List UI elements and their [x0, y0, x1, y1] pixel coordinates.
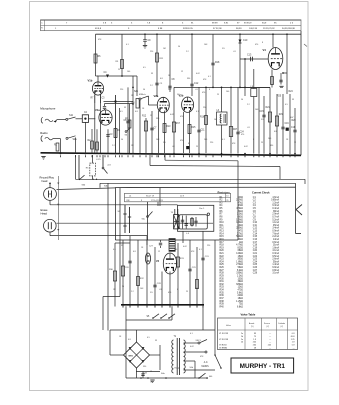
svg-text:4.6mA: 4.6mA — [272, 196, 279, 199]
svg-text:V4: V4 — [263, 48, 267, 52]
svg-text:50: 50 — [241, 99, 243, 101]
svg-text:6.9mA: 6.9mA — [272, 266, 279, 269]
svg-text:0.1: 0.1 — [196, 111, 199, 113]
svg-text:V2a: V2a — [154, 94, 159, 98]
svg-text:R25: R25 — [220, 264, 225, 266]
svg-text:25: 25 — [261, 142, 263, 144]
svg-text:0.1: 0.1 — [208, 76, 211, 78]
svg-text:98,99: 98,99 — [236, 28, 242, 30]
svg-text:28: 28 — [254, 348, 256, 350]
svg-text:C28: C28 — [253, 273, 258, 275]
svg-text:Erase: Erase — [41, 208, 49, 212]
svg-text:S4c: S4c — [142, 219, 146, 221]
svg-text:.01: .01 — [159, 289, 162, 291]
svg-text:1.4mA: 1.4mA — [272, 263, 279, 266]
svg-text:6.8: 6.8 — [160, 78, 163, 80]
svg-text:2.2: 2.2 — [186, 51, 189, 53]
svg-text:C12: C12 — [253, 228, 258, 230]
svg-text:18kΩ: 18kΩ — [238, 298, 244, 300]
svg-text:470Ω: 470Ω — [237, 290, 243, 292]
svg-text:R13: R13 — [166, 126, 171, 128]
svg-text:33kΩ: 33kΩ — [238, 239, 244, 241]
svg-text:0.1: 0.1 — [126, 44, 129, 46]
svg-text:50: 50 — [121, 139, 123, 141]
svg-text:V1b: V1b — [88, 79, 93, 83]
svg-text:—: — — [269, 342, 271, 344]
svg-text:V2 9CC88: V2 9CC88 — [219, 339, 228, 341]
svg-text:V3 EL84: V3 EL84 — [219, 345, 227, 347]
svg-text:2.2: 2.2 — [131, 291, 134, 293]
svg-text:R16: R16 — [220, 239, 225, 241]
svg-text:—: — — [293, 348, 295, 350]
svg-text:560kΩ: 560kΩ — [236, 236, 243, 238]
svg-text:100: 100 — [268, 138, 271, 140]
svg-text:33: 33 — [292, 99, 294, 101]
svg-text:R31: R31 — [220, 281, 225, 283]
svg-text:.01: .01 — [195, 89, 198, 91]
svg-text:2.2mA: 2.2mA — [272, 235, 279, 238]
svg-text:470: 470 — [255, 44, 258, 46]
svg-text:—: — — [269, 336, 271, 338]
svg-text:45mA: 45mA — [273, 224, 279, 227]
svg-text:1MΩ: 1MΩ — [238, 205, 243, 207]
svg-text:R17: R17 — [176, 123, 181, 125]
svg-text:0.8mA: 0.8mA — [272, 269, 279, 272]
svg-text:R14: R14 — [220, 233, 225, 235]
svg-text:25: 25 — [186, 291, 188, 293]
svg-text:330: 330 — [187, 78, 190, 80]
svg-text:49Mc/s: 49Mc/s — [139, 94, 146, 96]
svg-text:12: 12 — [150, 115, 152, 117]
svg-text:75Ω: 75Ω — [239, 304, 244, 306]
svg-text:50: 50 — [178, 46, 180, 48]
svg-text:R12: R12 — [220, 228, 225, 230]
svg-text:220: 220 — [150, 51, 153, 53]
svg-text:0.1: 0.1 — [190, 333, 193, 335]
svg-text:V4 EM84: V4 EM84 — [219, 348, 228, 350]
svg-text:220: 220 — [210, 142, 213, 144]
svg-text:R15: R15 — [220, 236, 225, 238]
svg-text:0.5: 0.5 — [147, 337, 150, 339]
svg-text:1.9: 1.9 — [292, 342, 295, 344]
svg-text:Head: Head — [41, 212, 48, 216]
svg-text:2b: 2b — [241, 342, 243, 344]
svg-text:220: 220 — [120, 89, 123, 91]
svg-text:0.02: 0.02 — [190, 346, 194, 348]
svg-text:Current Check: Current Check — [252, 191, 270, 195]
svg-text:.01: .01 — [172, 146, 175, 148]
svg-text:(V): (V) — [281, 326, 284, 328]
svg-text:Cathode: Cathode — [278, 322, 285, 325]
svg-text:12: 12 — [294, 142, 296, 144]
svg-text:240 V: 240 V — [196, 340, 202, 342]
svg-text:C23: C23 — [253, 259, 258, 261]
svg-text:R17: R17 — [220, 242, 225, 244]
svg-text:12: 12 — [181, 71, 183, 73]
svg-text:0.7mA: 0.7mA — [272, 215, 279, 218]
svg-text:47kΩ: 47kΩ — [238, 202, 244, 204]
svg-text:50: 50 — [143, 89, 145, 91]
svg-text:14mA: 14mA — [273, 238, 279, 241]
svg-text:8: 8 — [177, 289, 178, 291]
svg-text:R36: R36 — [220, 295, 225, 297]
svg-text:38mA: 38mA — [273, 210, 279, 213]
svg-text:R19: R19 — [220, 247, 225, 249]
svg-text:220kΩ: 220kΩ — [236, 228, 243, 230]
svg-text:1M: 1M — [163, 48, 166, 50]
svg-text:93: 93 — [254, 333, 256, 335]
svg-text:8: 8 — [209, 89, 210, 91]
svg-text:—: — — [269, 348, 271, 350]
svg-text:R39: R39 — [220, 304, 225, 306]
svg-text:0.5: 0.5 — [120, 111, 123, 113]
svg-text:4.7MΩ: 4.7MΩ — [236, 245, 243, 247]
svg-text:0.9mA: 0.9mA — [272, 230, 279, 233]
svg-text:470: 470 — [180, 140, 183, 142]
svg-text:R21: R21 — [220, 253, 225, 255]
svg-text:680Ω: 680Ω — [237, 216, 243, 218]
svg-text:R32: R32 — [220, 284, 225, 286]
svg-text:Radio: Radio — [40, 131, 48, 135]
svg-text:1.9: 1.9 — [253, 339, 256, 341]
svg-text:Rec/y: Rec/y — [175, 367, 180, 369]
svg-text:—: — — [269, 333, 271, 335]
svg-text:6.8: 6.8 — [274, 131, 277, 133]
svg-text:2.2: 2.2 — [247, 104, 250, 106]
svg-text:0.4mA: 0.4mA — [272, 207, 279, 210]
svg-text:31mA: 31mA — [273, 244, 279, 247]
svg-text:330kΩ: 330kΩ — [236, 273, 243, 275]
svg-text:2.9mA: 2.9mA — [272, 213, 279, 216]
svg-text:R29: R29 — [220, 275, 225, 277]
svg-text:9.5mA: 9.5mA — [272, 255, 279, 258]
svg-text:98 99: 98 99 — [212, 23, 218, 25]
svg-text:200: 200 — [253, 342, 256, 344]
svg-text:1.8mA: 1.8mA — [272, 246, 279, 249]
svg-text:MURPHY - TR1: MURPHY - TR1 — [240, 363, 286, 370]
svg-text:A.C.: A.C. — [204, 361, 209, 364]
svg-text:Valve Table: Valve Table — [241, 312, 256, 316]
svg-text:2.2kΩ: 2.2kΩ — [237, 275, 243, 277]
svg-text:C25: C25 — [253, 264, 258, 266]
svg-text:470kΩ: 470kΩ — [236, 208, 243, 210]
svg-text:R33: R33 — [220, 287, 225, 289]
svg-text:2b: 2b — [241, 336, 243, 338]
svg-text:25: 25 — [196, 146, 198, 148]
svg-text:MAINS: MAINS — [202, 365, 210, 368]
svg-text:C20: C20 — [253, 250, 258, 252]
svg-text:C11: C11 — [253, 225, 258, 227]
svg-text:8.2kΩ: 8.2kΩ — [237, 270, 243, 272]
svg-text:6.8kΩ: 6.8kΩ — [237, 306, 243, 308]
svg-text:5%: 5% — [150, 292, 153, 294]
svg-text:33: 33 — [121, 245, 123, 247]
svg-text:R26: R26 — [220, 267, 225, 269]
svg-text:33: 33 — [155, 340, 157, 342]
svg-text:330: 330 — [270, 145, 273, 147]
svg-text:C18: C18 — [253, 245, 258, 247]
svg-text:50: 50 — [122, 286, 124, 288]
svg-text:R15: R15 — [191, 127, 196, 129]
svg-text:R34: R34 — [220, 290, 225, 292]
svg-text:head: head — [42, 179, 48, 183]
svg-text:1.1mA: 1.1mA — [272, 221, 279, 224]
svg-text:150Ω: 150Ω — [237, 278, 243, 280]
svg-text:68kΩ: 68kΩ — [238, 250, 244, 252]
svg-text:100: 100 — [127, 71, 130, 73]
svg-text:2.2: 2.2 — [150, 85, 153, 87]
svg-text:5%: 5% — [261, 119, 264, 121]
svg-text:29: 29 — [226, 200, 228, 202]
svg-text:6.8: 6.8 — [128, 339, 131, 341]
svg-text:1.25: 1.25 — [291, 339, 295, 341]
svg-text:0.3mA: 0.3mA — [272, 252, 279, 255]
svg-text:2.7kΩ: 2.7kΩ — [237, 233, 243, 235]
svg-text:1M: 1M — [214, 119, 217, 121]
svg-text:94,99,959,98: 94,99,959,98 — [282, 28, 296, 30]
svg-text:1.5MΩ: 1.5MΩ — [236, 219, 243, 221]
svg-text:C12: C12 — [194, 83, 199, 85]
svg-text:15kΩ: 15kΩ — [238, 256, 244, 258]
svg-text:22kΩ: 22kΩ — [238, 211, 244, 213]
svg-text:0.02: 0.02 — [170, 114, 174, 116]
svg-text:2.2MΩ: 2.2MΩ — [236, 200, 243, 202]
svg-text:220Ω: 220Ω — [237, 295, 243, 297]
svg-text:22J: 22J — [107, 164, 110, 166]
svg-text:3.3kΩ: 3.3kΩ — [237, 214, 243, 216]
svg-text:6.3mA: 6.3mA — [272, 204, 279, 207]
svg-text:7.6mA: 7.6mA — [272, 232, 279, 235]
svg-text:R13: R13 — [220, 231, 225, 233]
svg-text:R22: R22 — [220, 256, 225, 258]
svg-text:.01: .01 — [233, 51, 236, 53]
svg-text:92/920 95: 92/920 95 — [183, 28, 194, 30]
svg-text:69 8,8: 69 8,8 — [95, 28, 102, 30]
svg-text:C21: C21 — [253, 253, 258, 255]
svg-text:2.2: 2.2 — [112, 145, 115, 147]
svg-text:Microphone: Microphone — [40, 107, 55, 111]
svg-text:C13: C13 — [247, 55, 252, 57]
svg-text:93 93,9: 93 93,9 — [244, 23, 252, 25]
svg-text:390Ω: 390Ω — [237, 259, 243, 261]
svg-text:5%: 5% — [177, 94, 180, 96]
svg-text:97 92,98: 97 92,98 — [213, 28, 222, 30]
svg-text:56kΩ: 56kΩ — [238, 267, 244, 269]
svg-text:R18: R18 — [215, 62, 220, 64]
svg-text:39kΩ: 39kΩ — [238, 281, 244, 283]
svg-text:100: 100 — [195, 288, 198, 290]
svg-text:17/9,4,9/7,93: 17/9,4,9/7,93 — [151, 200, 164, 202]
svg-text:0.02: 0.02 — [196, 73, 200, 75]
svg-text:C19: C19 — [253, 247, 258, 249]
svg-text:55mA: 55mA — [273, 260, 279, 263]
svg-text:47Ω: 47Ω — [239, 231, 244, 233]
svg-text:3.4mA: 3.4mA — [272, 227, 279, 230]
svg-text:(V): (V) — [267, 326, 270, 328]
svg-text:C13: C13 — [253, 231, 258, 233]
svg-text:C16: C16 — [253, 239, 258, 241]
svg-text:1kΩ: 1kΩ — [239, 242, 243, 244]
svg-text:C26: C26 — [253, 267, 258, 269]
svg-text:0.1: 0.1 — [199, 249, 202, 251]
svg-text:0.1: 0.1 — [222, 139, 225, 141]
svg-text:680kΩ: 680kΩ — [236, 284, 243, 286]
svg-text:Resistors: Resistors — [218, 191, 231, 195]
svg-text:—: — — [269, 339, 271, 341]
svg-text:8: 8 — [253, 139, 254, 141]
svg-text:330: 330 — [143, 366, 146, 368]
svg-text:1M: 1M — [131, 95, 134, 97]
svg-text:100: 100 — [226, 91, 229, 93]
svg-text:33: 33 — [151, 73, 153, 75]
svg-text:R10: R10 — [220, 222, 225, 224]
svg-text:100kΩ: 100kΩ — [236, 222, 243, 224]
svg-text:0.02: 0.02 — [183, 246, 187, 248]
svg-text:5.9: 5.9 — [292, 345, 295, 347]
svg-text:1.2mA: 1.2mA — [272, 201, 279, 204]
svg-text:245: 245 — [268, 345, 271, 347]
svg-text:470: 470 — [202, 92, 205, 94]
svg-text:R40: R40 — [220, 306, 225, 308]
svg-text:470: 470 — [241, 134, 244, 136]
svg-text:Erc 1: Erc 1 — [200, 207, 206, 210]
svg-text:V1a: V1a — [95, 108, 100, 112]
svg-text:3.1mA: 3.1mA — [272, 272, 279, 275]
svg-text:(V): (V) — [251, 326, 254, 328]
svg-text:C10: C10 — [243, 40, 248, 42]
svg-text:S4b: S4b — [190, 367, 193, 369]
svg-text:220: 220 — [203, 107, 206, 109]
svg-text:12: 12 — [150, 371, 152, 373]
svg-text:5.2mA: 5.2mA — [272, 218, 279, 221]
svg-text:5.6kΩ: 5.6kΩ — [237, 292, 243, 294]
svg-text:R23: R23 — [220, 259, 225, 261]
svg-text:S14,7 19: S14,7 19 — [146, 196, 155, 198]
svg-text:Anode: Anode — [249, 322, 254, 325]
svg-text:C15: C15 — [253, 236, 258, 238]
svg-text:5%: 5% — [163, 142, 166, 144]
svg-text:Screen: Screen — [264, 322, 270, 325]
svg-text:25: 25 — [217, 94, 219, 96]
svg-text:V1 9CC89: V1 9CC89 — [219, 333, 228, 335]
svg-text:0.02: 0.02 — [244, 146, 248, 148]
svg-text:R30: R30 — [220, 278, 225, 280]
svg-text:330: 330 — [174, 249, 177, 251]
svg-text:1M: 1M — [131, 145, 134, 147]
svg-text:R38: R38 — [220, 301, 225, 303]
svg-text:0.6mA: 0.6mA — [272, 241, 279, 244]
svg-text:0.5: 0.5 — [285, 104, 288, 106]
svg-text:12kΩ: 12kΩ — [238, 287, 244, 289]
svg-text:R37: R37 — [220, 298, 225, 300]
svg-text:C14: C14 — [253, 233, 258, 235]
svg-text:820Ω: 820Ω — [237, 247, 243, 249]
svg-text:C27: C27 — [253, 270, 258, 272]
svg-text:0.5: 0.5 — [143, 67, 146, 69]
svg-text:260: 260 — [253, 345, 256, 347]
svg-text:8: 8 — [188, 143, 189, 145]
svg-text:75: 75 — [254, 336, 256, 338]
svg-text:2.6mA: 2.6mA — [272, 258, 279, 261]
svg-text:13: 13 — [226, 196, 228, 198]
svg-text:33: 33 — [124, 107, 126, 109]
svg-text:330: 330 — [156, 118, 159, 120]
svg-text:65.8: 65.8 — [291, 336, 295, 338]
svg-text:R35: R35 — [220, 292, 225, 294]
svg-text:Record/Play: Record/Play — [40, 175, 55, 179]
svg-text:6.8: 6.8 — [133, 251, 136, 253]
svg-text:C10: C10 — [253, 222, 258, 224]
svg-text:0.5: 0.5 — [113, 249, 116, 251]
svg-text:0.85mA: 0.85mA — [271, 199, 279, 202]
svg-text:1.2MΩ: 1.2MΩ — [236, 301, 243, 303]
svg-text:25: 25 — [118, 69, 120, 71]
svg-text:270kΩ: 270kΩ — [236, 264, 243, 266]
svg-text:R27: R27 — [220, 270, 225, 272]
svg-text:8: 8 — [262, 42, 263, 44]
svg-text:220: 220 — [207, 245, 210, 247]
svg-text:120kΩ: 120kΩ — [236, 253, 243, 255]
svg-text:109,139: 109,139 — [249, 28, 258, 30]
svg-text:4.1mA: 4.1mA — [272, 249, 279, 252]
svg-text:0.9: 0.9 — [292, 333, 295, 335]
svg-text:6.8: 6.8 — [135, 111, 138, 113]
svg-text:R18: R18 — [220, 245, 225, 247]
svg-text:29 29,79,92: 29 29,79,92 — [263, 28, 275, 30]
svg-text:1.8MΩ: 1.8MΩ — [236, 261, 243, 263]
svg-text:.01: .01 — [247, 127, 250, 129]
svg-text:R20: R20 — [220, 250, 225, 252]
svg-text:100Ω: 100Ω — [237, 197, 243, 199]
svg-text:470: 470 — [168, 292, 171, 294]
svg-text:12: 12 — [158, 251, 160, 253]
svg-text:R28: R28 — [220, 273, 225, 275]
svg-text:5%: 5% — [222, 48, 225, 50]
svg-text:R24: R24 — [220, 261, 225, 263]
svg-text:C17: C17 — [253, 242, 258, 244]
svg-text:100: 100 — [204, 139, 207, 141]
svg-text:10kΩ: 10kΩ — [238, 225, 244, 227]
svg-text:1M: 1M — [113, 289, 116, 291]
svg-text:C22: C22 — [253, 256, 258, 258]
svg-text:C24: C24 — [253, 261, 258, 263]
svg-text:400: 400 — [209, 376, 212, 378]
